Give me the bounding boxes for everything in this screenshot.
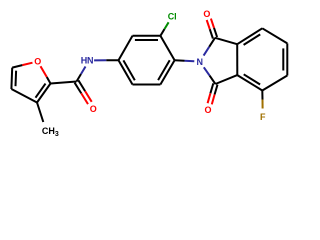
wire: C3-CH3 bond <box>37 103 43 123</box>
wire: edge R-BR double <box>160 60 174 84</box>
wire: phenyl-N(imide) bond <box>175 59 185 62</box>
wire: edge BR-BL <box>133 84 161 86</box>
wire: edge RB-Bv <box>262 76 287 91</box>
wire: furan C2 - amide C bond <box>51 82 77 84</box>
wire: N-phenyl bond <box>94 59 106 61</box>
svg-text:O: O <box>204 105 211 115</box>
wire: amide C=O double bond <box>75 83 82 94</box>
wire: edge TL-TR double <box>133 35 161 37</box>
wire: edge Tv-RT <box>262 28 287 43</box>
wire: Ctop-ring junction bond <box>215 38 237 44</box>
wire: furan C3-C4 bond <box>11 89 37 103</box>
wire: ring fusion bond <box>236 44 238 75</box>
wire: furan C4=C5 double bond <box>10 68 13 89</box>
svg-text:O: O <box>203 9 210 19</box>
svg-text:F: F <box>260 112 266 122</box>
wire: edge Bv-Jb double <box>237 75 262 90</box>
svg-text:N: N <box>197 57 204 67</box>
wire: N-C(=O)top bond <box>204 47 210 56</box>
svg-text:O: O <box>34 57 41 67</box>
wire: amide C-N bond <box>77 74 82 82</box>
wire: edge RT-RB double <box>286 43 288 75</box>
chemical structure diagram <box>0 0 300 150</box>
svg-text:HN: HN <box>81 56 94 66</box>
wire: C-F bond <box>261 91 263 100</box>
svg-text:O: O <box>90 104 97 114</box>
svg-text:Cl: Cl <box>168 12 177 22</box>
wire: furan C2=C3 double bond <box>37 84 51 103</box>
benzo ring: edge Jt-Tv double <box>237 28 262 44</box>
wire: Cbot-ring junction bond <box>215 75 237 84</box>
wire: edge BL-L double <box>119 60 133 84</box>
benzene ring (central): edge L-TL <box>119 36 133 60</box>
wire: top C=O double bond <box>214 28 217 37</box>
wire: bottom C=O double bond <box>210 83 213 93</box>
wire: edge TR-R <box>160 36 174 60</box>
wire: furan O1-C2 bond <box>41 66 47 77</box>
wire: C-Cl bond <box>160 29 164 36</box>
wire: furan O1-C5 bond <box>22 63 32 65</box>
wire: N-C(=O)bottom bond <box>204 67 210 75</box>
